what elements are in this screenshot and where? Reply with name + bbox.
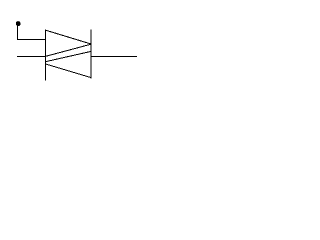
wire right lead bbox=[91, 56, 138, 58]
diac D1 right electrode bar bbox=[90, 30, 92, 79]
diac D1 triangle 2 top edge bbox=[45, 51, 91, 61]
diac D1 triangle 1 top edge bbox=[45, 30, 91, 44]
node A (junction dot) bbox=[16, 21, 21, 26]
diac D1 triangle 1 bottom edge bbox=[45, 44, 91, 56]
wire bottom-left lead bbox=[17, 56, 46, 58]
diac D1 left electrode bar bbox=[45, 30, 47, 81]
wire top-left lead bbox=[17, 39, 46, 41]
wire vertical from node A bbox=[17, 22, 19, 41]
diac D1 triangle 2 bottom edge bbox=[45, 64, 91, 78]
